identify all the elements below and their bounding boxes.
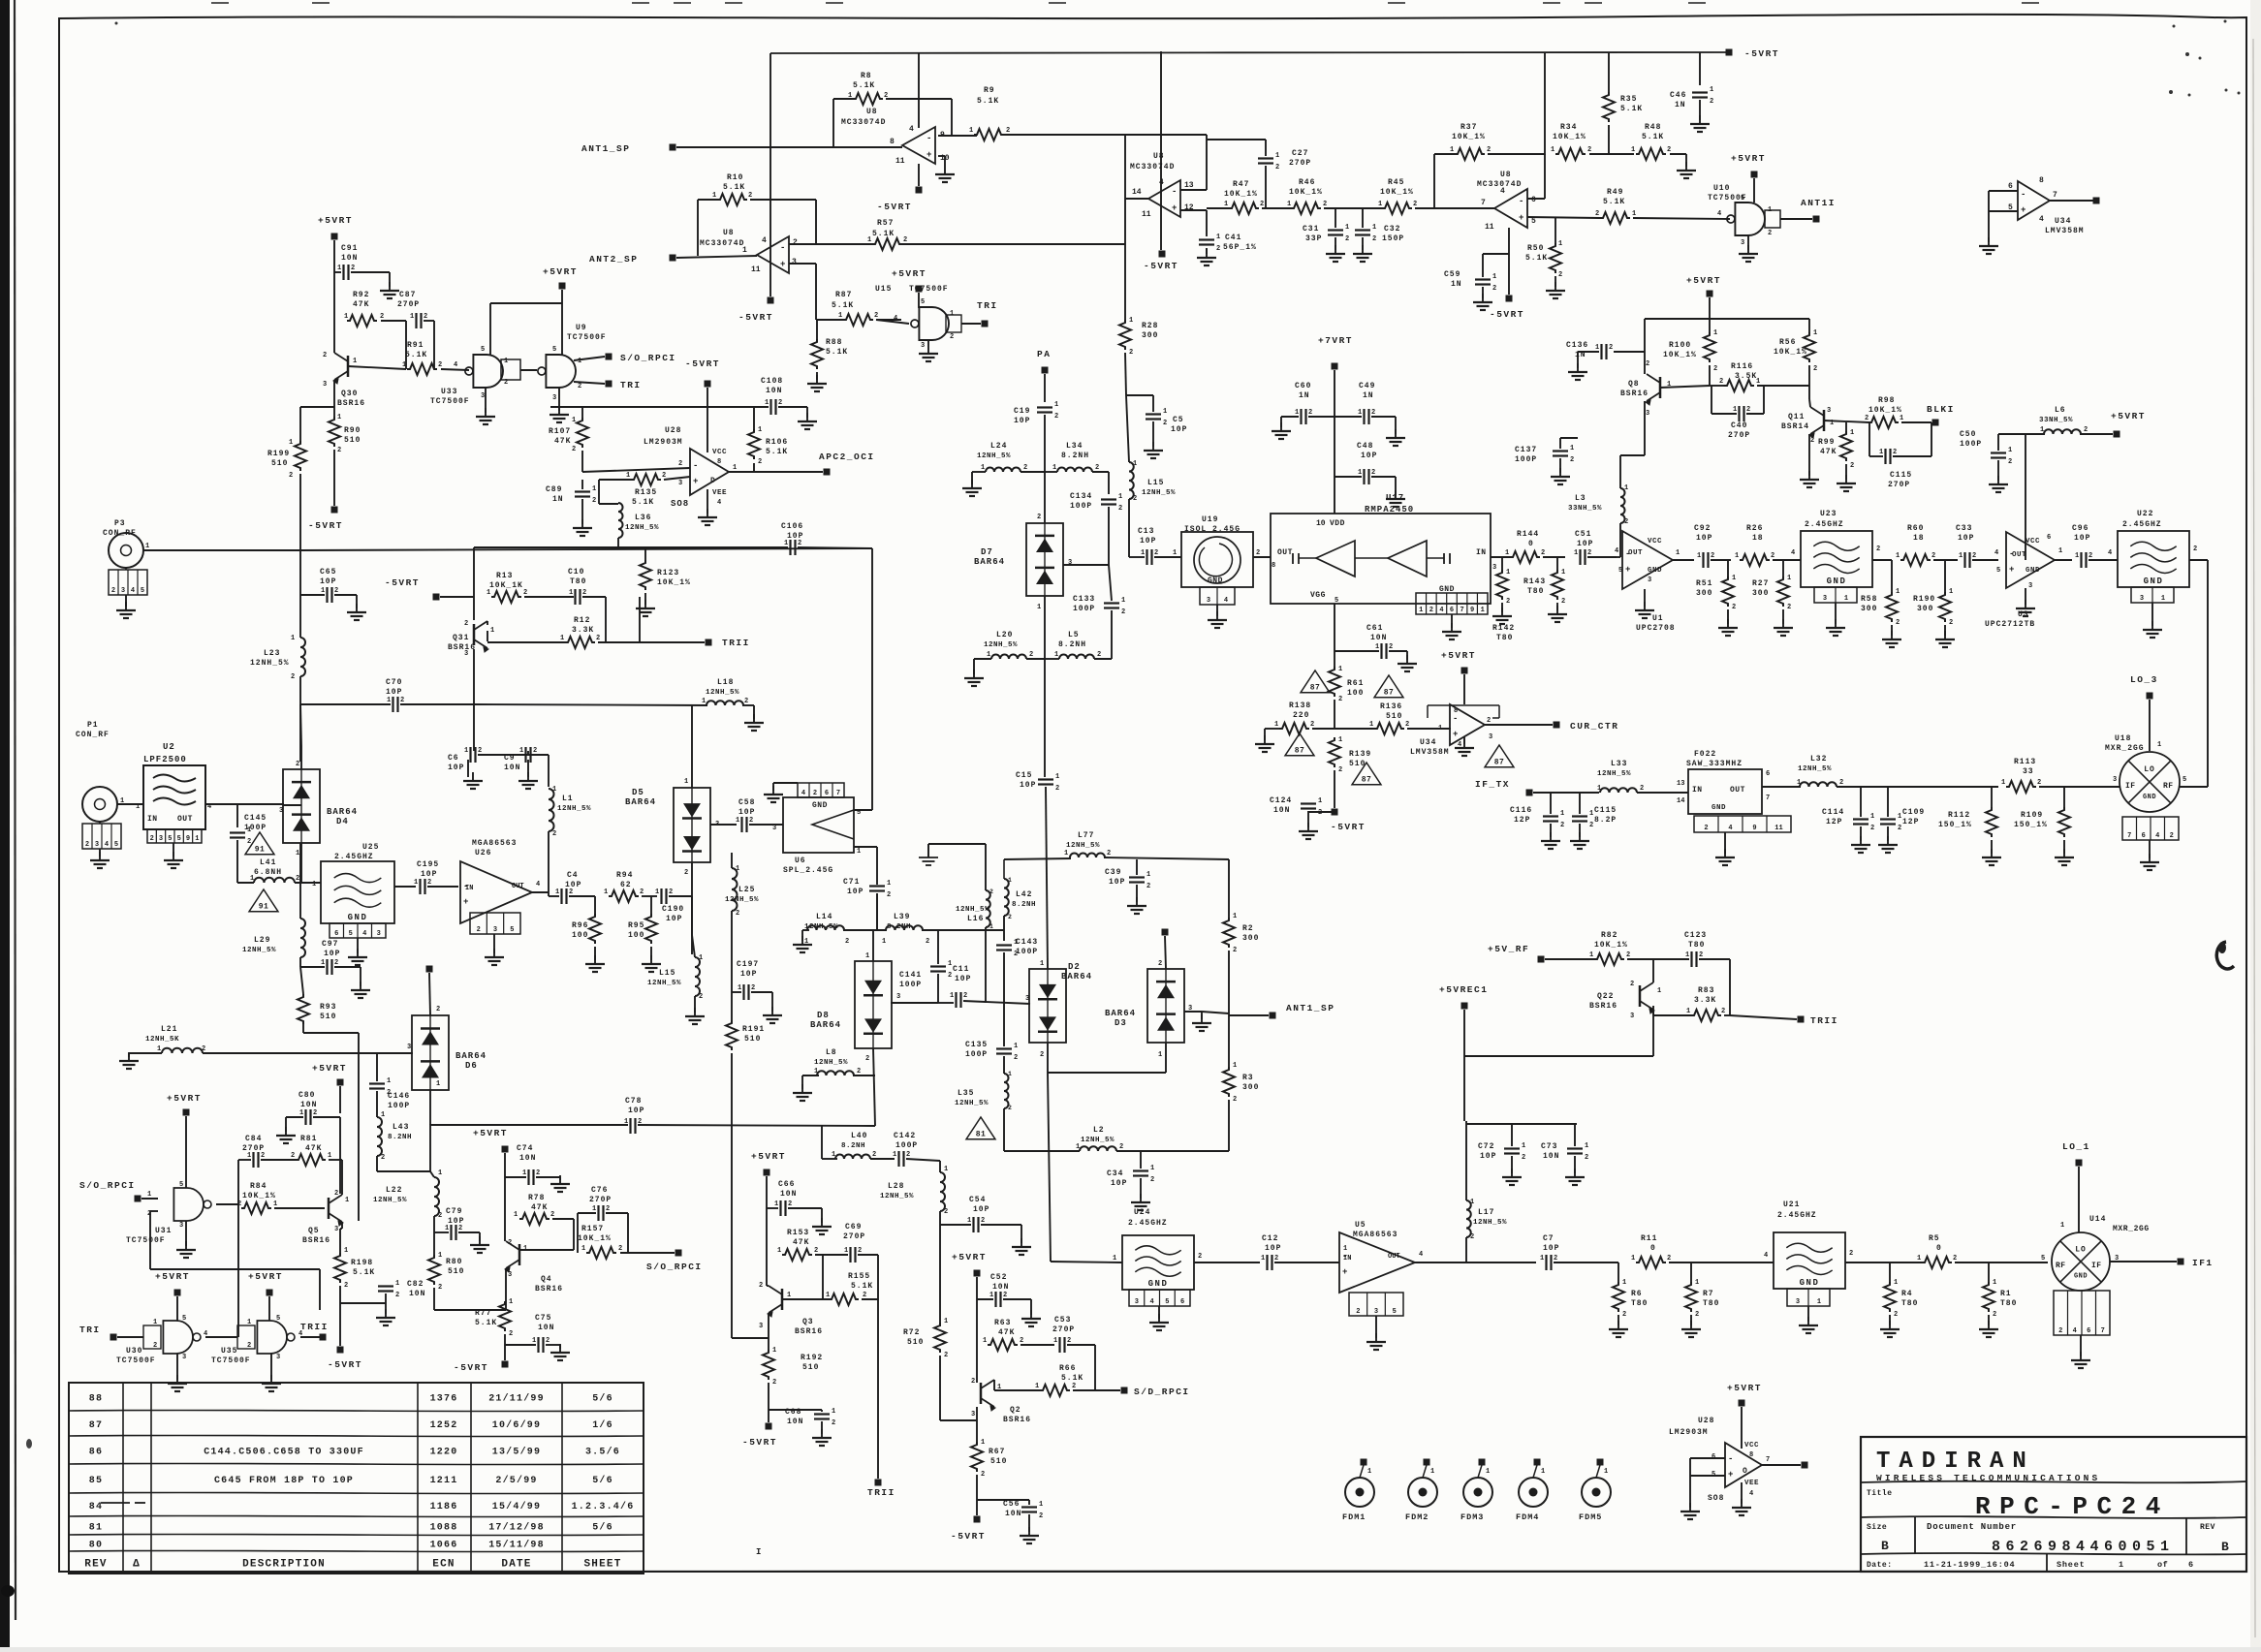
svg-text:2: 2 xyxy=(1894,1311,1898,1319)
svg-text:1: 1 xyxy=(487,589,490,597)
wire xyxy=(1129,556,1145,558)
svg-text:300: 300 xyxy=(1142,331,1158,340)
wire xyxy=(742,704,754,706)
wire xyxy=(1028,1514,1030,1532)
capacitor C84 270P xyxy=(252,1152,254,1168)
svg-text:D7: D7 xyxy=(981,547,993,557)
svg-text:ISOL_2.45G: ISOL_2.45G xyxy=(1184,525,1240,534)
svg-text:LMV358M: LMV358M xyxy=(2045,227,2085,235)
svg-text:2: 2 xyxy=(832,1419,835,1427)
wire xyxy=(1125,353,1126,395)
wire xyxy=(1045,658,1059,660)
wire xyxy=(333,240,335,272)
svg-text:U30: U30 xyxy=(126,1347,142,1356)
svg-text:TC7500F: TC7500F xyxy=(211,1356,251,1365)
svg-text:8626984460051: 8626984460051 xyxy=(1992,1539,2175,1555)
svg-text:2: 2 xyxy=(1622,1311,1626,1319)
wire xyxy=(339,1303,341,1346)
svg-text:2: 2 xyxy=(1310,721,1314,729)
wire xyxy=(1389,650,1407,652)
wire xyxy=(1312,728,1335,730)
svg-text:10K_1%: 10K_1% xyxy=(1774,348,1807,357)
wire xyxy=(1711,386,1712,414)
svg-text:2: 2 xyxy=(1040,1051,1044,1059)
svg-text:10N: 10N xyxy=(1543,1152,1559,1161)
wire xyxy=(1262,207,1291,209)
svg-text:VCC: VCC xyxy=(712,449,727,456)
svg-text:Q30: Q30 xyxy=(341,390,358,398)
inductor L33 12NH_5% xyxy=(1600,788,1637,793)
ground U18 xyxy=(2149,854,2151,862)
ground C31 xyxy=(1335,245,1336,254)
svg-text:C4: C4 xyxy=(567,871,579,880)
capacitor C15 10P xyxy=(1038,778,1053,780)
wire xyxy=(236,853,238,883)
U34b feedback xyxy=(1427,705,1429,718)
svg-text:1: 1 xyxy=(1378,201,1382,208)
svg-text:88: 88 xyxy=(89,1394,103,1405)
svg-text:R112: R112 xyxy=(1948,811,1970,820)
svg-text:1: 1 xyxy=(1685,951,1689,959)
capacitor C40 270P xyxy=(1738,406,1740,421)
wire xyxy=(300,703,391,705)
svg-text:1: 1 xyxy=(1560,810,1564,818)
svg-text:LMV358M: LMV358M xyxy=(1410,748,1450,757)
wire xyxy=(376,1156,378,1171)
svg-text:5.1K: 5.1K xyxy=(475,1319,497,1327)
wire xyxy=(429,1124,431,1125)
svg-text:5.1K: 5.1K xyxy=(1525,254,1548,263)
svg-text:B: B xyxy=(1881,1539,1889,1553)
svg-text:+: + xyxy=(1342,1267,1347,1277)
wire xyxy=(2080,1335,2082,1356)
svg-text:Q8: Q8 xyxy=(1628,380,1640,389)
wire xyxy=(802,929,809,931)
svg-text:1.2.3.4/6: 1.2.3.4/6 xyxy=(572,1501,635,1512)
svg-text:1: 1 xyxy=(532,1337,536,1345)
svg-text:2: 2 xyxy=(1893,449,1897,456)
wire xyxy=(1868,422,1870,456)
wire xyxy=(993,1380,995,1390)
svg-text:2: 2 xyxy=(1870,825,1874,832)
svg-text:TRII: TRII xyxy=(722,638,750,648)
wire xyxy=(1126,395,1129,462)
svg-text:+: + xyxy=(1172,203,1177,213)
capacitor C7 10P xyxy=(1545,1255,1547,1270)
svg-text:+5VRT: +5VRT xyxy=(473,1128,508,1138)
filter U21 2.45GHZ xyxy=(1774,1232,1845,1289)
svg-text:2: 2 xyxy=(1163,420,1167,427)
svg-text:VCC: VCC xyxy=(1648,538,1662,545)
ground L15b xyxy=(694,1008,696,1016)
svg-text:100P: 100P xyxy=(1960,440,1982,449)
capacitor C82 10N xyxy=(378,1285,393,1287)
wire xyxy=(940,1419,977,1421)
svg-text:1: 1 xyxy=(1338,736,1342,744)
wire xyxy=(1809,399,1810,407)
wire xyxy=(939,1211,941,1326)
svg-text:2: 2 xyxy=(684,869,688,877)
svg-text:C58: C58 xyxy=(738,798,755,807)
svg-text:1: 1 xyxy=(337,414,341,421)
svg-text:U18: U18 xyxy=(2115,734,2131,743)
svg-text:R198: R198 xyxy=(351,1259,373,1267)
resistor R107 47K xyxy=(577,418,588,448)
wire xyxy=(1955,1262,2048,1263)
wire xyxy=(549,895,559,897)
resistor R81 47K xyxy=(296,1154,326,1166)
wire xyxy=(185,1116,187,1188)
wire xyxy=(2080,433,2113,435)
svg-text:2: 2 xyxy=(2008,458,2012,466)
svg-text:2: 2 xyxy=(1107,850,1111,857)
svg-text:5.1K: 5.1K xyxy=(1061,1374,1083,1383)
svg-text:10P: 10P xyxy=(666,915,682,923)
svg-text:12NH_5%: 12NH_5% xyxy=(814,1059,848,1067)
wire xyxy=(1988,191,1990,211)
svg-text:B: B xyxy=(2221,1540,2229,1554)
svg-text:1: 1 xyxy=(328,1152,331,1160)
svg-text:2: 2 xyxy=(1624,518,1628,526)
svg-text:100: 100 xyxy=(628,931,644,940)
svg-text:BSR16: BSR16 xyxy=(1620,390,1649,398)
svg-text:1: 1 xyxy=(950,310,954,318)
svg-text:2: 2 xyxy=(2193,545,2197,553)
svg-text:U25: U25 xyxy=(362,843,379,852)
svg-text:L32: L32 xyxy=(1810,755,1827,764)
svg-text:1: 1 xyxy=(414,879,418,887)
wire xyxy=(973,659,975,674)
U19 pin box xyxy=(1200,587,1235,605)
svg-text:R50: R50 xyxy=(1527,244,1544,253)
svg-text:BAR64: BAR64 xyxy=(625,797,656,807)
svg-text:GND: GND xyxy=(2144,577,2164,586)
svg-text:5.1K: 5.1K xyxy=(723,183,745,192)
inductor L18 12NH_5% xyxy=(707,701,743,705)
svg-text:Δ: Δ xyxy=(133,1559,141,1571)
wire xyxy=(1727,560,1729,577)
nand gate U30 TC7500F xyxy=(163,1321,193,1354)
resistor R199 510 xyxy=(295,441,306,471)
svg-text:-5VRT: -5VRT xyxy=(385,577,420,588)
ground R7 xyxy=(1690,1321,1692,1329)
svg-text:2: 2 xyxy=(944,1208,948,1216)
svg-text:FDM2: FDM2 xyxy=(1405,1512,1429,1522)
wire xyxy=(1415,1262,1466,1263)
wire xyxy=(750,199,816,201)
wire xyxy=(1048,1073,1051,1262)
svg-text:10P: 10P xyxy=(324,950,340,958)
wire xyxy=(358,1033,360,1221)
svg-text:1: 1 xyxy=(560,635,564,642)
svg-text:of: of xyxy=(2157,1560,2168,1570)
ground U6 xyxy=(772,786,774,795)
wire xyxy=(340,1302,386,1304)
wire xyxy=(605,597,607,642)
resistor R192 510 xyxy=(763,1350,774,1380)
svg-text:2: 2 xyxy=(1014,1054,1018,1062)
svg-text:C123: C123 xyxy=(1684,931,1707,940)
svg-text:270P: 270P xyxy=(242,1144,265,1153)
svg-text:3: 3 xyxy=(276,1354,280,1361)
wire xyxy=(1617,1262,1619,1282)
svg-text:1: 1 xyxy=(402,361,406,369)
svg-text:8.2NH: 8.2NH xyxy=(1058,640,1086,649)
wire xyxy=(801,1075,803,1089)
wire xyxy=(504,1334,506,1360)
wire xyxy=(333,321,335,353)
svg-text:1: 1 xyxy=(1338,666,1342,673)
svg-text:1: 1 xyxy=(344,313,348,321)
svg-text:T80: T80 xyxy=(570,577,586,586)
svg-text:2: 2 xyxy=(458,1225,462,1232)
svg-text:BAR64: BAR64 xyxy=(455,1051,487,1061)
svg-text:1: 1 xyxy=(967,1217,971,1225)
wire xyxy=(853,1075,875,1076)
svg-text:R47: R47 xyxy=(1233,180,1249,189)
capacitor C79 10P xyxy=(450,1225,452,1240)
svg-text:C72: C72 xyxy=(1478,1142,1494,1151)
svg-text:1: 1 xyxy=(1224,201,1228,208)
svg-text:510: 510 xyxy=(990,1457,1007,1466)
svg-text:10P: 10P xyxy=(1111,1179,1127,1188)
svg-text:-: - xyxy=(926,134,931,143)
wire xyxy=(1371,416,1396,418)
svg-text:C190: C190 xyxy=(662,905,684,914)
wire xyxy=(1556,557,1558,570)
svg-text:2: 2 xyxy=(1710,98,1713,106)
wire xyxy=(400,703,474,705)
capacitor C53 270P xyxy=(1058,1337,1060,1353)
resistor R98 10K_1% xyxy=(1868,417,1899,428)
capacitor C190 10P xyxy=(660,888,662,904)
wire xyxy=(1559,458,1561,473)
diode pair D3 BAR64 xyxy=(1147,969,1184,1043)
wire xyxy=(1782,560,1784,577)
svg-text:2: 2 xyxy=(323,352,327,359)
inductor L5 8.2NH xyxy=(1059,655,1094,660)
U25 pin row xyxy=(330,923,386,938)
wire xyxy=(977,1499,1029,1501)
svg-text:U19: U19 xyxy=(1202,515,1218,524)
svg-text:2: 2 xyxy=(1023,464,1027,472)
svg-text:2: 2 xyxy=(948,972,952,980)
svg-text:11: 11 xyxy=(895,157,905,166)
svg-text:9: 9 xyxy=(186,835,190,843)
wire xyxy=(559,1345,561,1349)
isolator U19 ISOL_2.45G xyxy=(1181,532,1253,587)
svg-text:2: 2 xyxy=(1839,779,1843,787)
ground U23 xyxy=(1835,619,1837,628)
svg-text:9: 9 xyxy=(1470,607,1474,614)
svg-text:12P: 12P xyxy=(1826,818,1842,826)
svg-text:R27: R27 xyxy=(1752,579,1769,588)
-5VRT U8c xyxy=(1506,296,1513,302)
capacitor C89 1N xyxy=(575,490,590,492)
svg-text:D: D xyxy=(710,477,715,485)
wire xyxy=(1201,1012,1203,1019)
svg-text:2: 2 xyxy=(1713,365,1717,373)
wire xyxy=(598,641,640,643)
svg-text:5: 5 xyxy=(182,1315,186,1323)
svg-text:8.2NH: 8.2NH xyxy=(841,1142,865,1150)
capacitor C108 10N xyxy=(769,399,771,415)
wire xyxy=(548,755,550,787)
resistor R3 300 xyxy=(1223,1067,1235,1097)
svg-text:2: 2 xyxy=(1323,201,1327,208)
svg-text:R8: R8 xyxy=(861,72,872,80)
wire xyxy=(749,824,783,826)
svg-text:2: 2 xyxy=(1097,651,1101,659)
svg-text:LM2903M: LM2903M xyxy=(1669,1428,1709,1437)
svg-text:T80: T80 xyxy=(1527,587,1544,596)
svg-text:1: 1 xyxy=(1008,877,1012,884)
wire xyxy=(789,263,816,265)
wire xyxy=(1228,859,1230,920)
svg-text:L77: L77 xyxy=(1078,831,1094,840)
svg-text:1: 1 xyxy=(684,778,688,786)
svg-text:L21: L21 xyxy=(161,1025,177,1034)
wire xyxy=(536,1176,560,1178)
wire xyxy=(1044,374,1046,402)
svg-text:C61: C61 xyxy=(1366,624,1383,633)
resistor R144 0 xyxy=(1510,551,1540,563)
wire xyxy=(1021,1225,1022,1243)
svg-text:17/12/98: 17/12/98 xyxy=(488,1522,545,1534)
wire xyxy=(128,1053,130,1057)
svg-text:1: 1 xyxy=(1505,549,1509,557)
svg-text:R66: R66 xyxy=(1059,1364,1076,1373)
svg-text:L15: L15 xyxy=(659,969,675,978)
wire xyxy=(1690,1475,1725,1477)
svg-text:C143: C143 xyxy=(1016,938,1038,947)
svg-text:10K_1%: 10K_1% xyxy=(578,1234,612,1243)
svg-text:3: 3 xyxy=(179,1222,183,1230)
wire xyxy=(1308,416,1335,418)
svg-text:5.1K: 5.1K xyxy=(1620,105,1643,113)
wire xyxy=(766,1176,768,1208)
svg-text:2: 2 xyxy=(436,1006,440,1013)
wire xyxy=(598,480,600,504)
svg-text:C79: C79 xyxy=(446,1207,462,1216)
wire xyxy=(1554,218,1556,243)
svg-text:10K_1%: 10K_1% xyxy=(1224,190,1258,199)
svg-text:2: 2 xyxy=(381,1154,385,1162)
svg-text:1: 1 xyxy=(865,952,869,960)
wire xyxy=(922,929,1004,931)
wire xyxy=(1028,1500,1030,1505)
wire xyxy=(2050,200,2093,202)
svg-text:1: 1 xyxy=(555,888,559,896)
capacitor C124 10N xyxy=(1301,802,1316,804)
svg-text:Q11: Q11 xyxy=(1788,413,1805,421)
svg-text:2: 2 xyxy=(1256,549,1260,557)
svg-text:VCC: VCC xyxy=(1744,1442,1759,1449)
svg-text:Q31: Q31 xyxy=(453,634,469,642)
svg-text:REV: REV xyxy=(2200,1523,2215,1532)
capacitor C96 10P xyxy=(2080,552,2082,568)
svg-text:TRII: TRII xyxy=(867,1487,895,1498)
svg-text:R109: R109 xyxy=(2021,811,2043,820)
ground C54 xyxy=(1021,1238,1022,1247)
svg-text:4: 4 xyxy=(1615,547,1618,555)
svg-text:2: 2 xyxy=(903,236,907,244)
svg-text:3: 3 xyxy=(279,807,283,815)
nand gate U33 TC7500F xyxy=(473,355,503,388)
filter U23 2.45GHZ xyxy=(1801,531,1872,587)
svg-text:1: 1 xyxy=(777,1247,781,1255)
inductor L15b 12NH_5% xyxy=(695,957,700,996)
wire xyxy=(340,1228,342,1230)
wire xyxy=(1228,1100,1230,1151)
wire xyxy=(918,293,920,308)
wire xyxy=(505,1268,507,1310)
svg-text:2: 2 xyxy=(1695,1311,1699,1319)
resistor R88 5.1K xyxy=(811,339,823,369)
svg-text:C54: C54 xyxy=(969,1196,986,1204)
svg-text:3: 3 xyxy=(792,258,797,266)
wire xyxy=(1463,736,1465,744)
wire xyxy=(944,156,946,166)
svg-text:U22: U22 xyxy=(2137,510,2153,518)
svg-text:+: + xyxy=(463,897,468,907)
svg-text:1: 1 xyxy=(1037,604,1041,611)
svg-text:+5VRT: +5VRT xyxy=(1686,275,1721,286)
svg-text:2: 2 xyxy=(1646,360,1649,368)
svg-text:3.3K: 3.3K xyxy=(572,626,594,635)
svg-text:2: 2 xyxy=(334,959,338,967)
svg-text:OUT: OUT xyxy=(1628,549,1643,557)
wire xyxy=(1466,1262,1536,1263)
ground L24 xyxy=(971,480,973,488)
wire xyxy=(939,1161,941,1172)
wire xyxy=(1334,604,1335,651)
svg-text:R83: R83 xyxy=(1698,986,1714,995)
svg-text:IN: IN xyxy=(1343,1255,1351,1262)
svg-text:270P: 270P xyxy=(589,1196,612,1204)
svg-text:2: 2 xyxy=(334,1190,338,1198)
wire xyxy=(1652,959,1654,982)
wire xyxy=(1869,455,1883,457)
wire xyxy=(1180,189,1207,191)
wire xyxy=(548,874,550,892)
wire xyxy=(377,1170,430,1172)
svg-text:BSR16: BSR16 xyxy=(302,1236,330,1245)
wire xyxy=(599,503,618,505)
wire xyxy=(1670,153,1686,155)
svg-text:2: 2 xyxy=(1274,1255,1278,1262)
terminal D6 top xyxy=(426,966,433,973)
wire xyxy=(772,783,774,791)
svg-text:6: 6 xyxy=(825,790,829,797)
ground R1 xyxy=(1988,1321,1990,1329)
wire xyxy=(1689,1458,1691,1476)
wire xyxy=(173,843,174,857)
svg-text:1: 1 xyxy=(787,1292,791,1299)
diode pair D7 BAR64 xyxy=(1026,523,1063,596)
svg-text:2: 2 xyxy=(1541,549,1545,557)
-5VRT C124 xyxy=(1332,809,1338,816)
svg-text:3: 3 xyxy=(182,1354,186,1361)
svg-text:C69: C69 xyxy=(845,1223,862,1231)
svg-text:1: 1 xyxy=(987,651,990,659)
wire xyxy=(594,896,596,914)
svg-text:1: 1 xyxy=(1055,773,1059,781)
wire xyxy=(618,546,645,548)
svg-text:270P: 270P xyxy=(397,300,420,309)
svg-text:U28: U28 xyxy=(665,426,681,435)
svg-text:C137: C137 xyxy=(1515,446,1537,454)
